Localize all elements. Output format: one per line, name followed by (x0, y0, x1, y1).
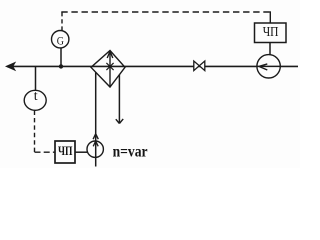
svg-text:G: G (57, 36, 64, 48)
junction dot under G (59, 64, 63, 68)
dashed control line from sensor G to box ЧП (61, 12, 63, 31)
mixer (elevator) diamond (91, 51, 125, 88)
wire: box ЧП to pump P2 (269, 43, 271, 55)
arrow: down flow at outlet (116, 119, 123, 124)
arrow: up flow above pump P1 (93, 134, 98, 139)
wire: pipe to sensor t (35, 66, 37, 90)
pump P2 (network pump) (257, 55, 280, 78)
dashed control line t to box чп (34, 111, 36, 153)
svg-text:ЧП: ЧП (263, 25, 279, 40)
frequency converter box чп (lower) (55, 141, 75, 163)
mixing cross at diamond centre (106, 63, 113, 70)
arrow: flow direction at left pipe end (6, 62, 15, 70)
valve (gate valve) (194, 61, 200, 71)
wire: G sensor to pipe (60, 48, 62, 67)
arrow: flow direction inside pump P2 (259, 64, 267, 70)
svg-text:t: t (34, 89, 38, 104)
wire: mixer outlet down with arrow (118, 75, 120, 124)
wire: mixer to pump P1 (vertical) (95, 72, 97, 166)
svg-text:n=var: n=var (113, 143, 148, 160)
arrow: up flow inside pump P1 (93, 141, 98, 146)
frequency converter box ЧП (upper) (255, 23, 287, 43)
sensor G (pressure gauge) (52, 31, 69, 48)
sensor t (thermometer) (24, 90, 46, 110)
arrow: up inside mixer (109, 51, 111, 88)
pump P1 (circulation pump, variable speed) (87, 141, 103, 157)
wire: box чп to pump P1 (75, 151, 87, 153)
wire: main supply pipe (7, 65, 298, 67)
svg-text:ЧП: ЧП (58, 144, 73, 158)
